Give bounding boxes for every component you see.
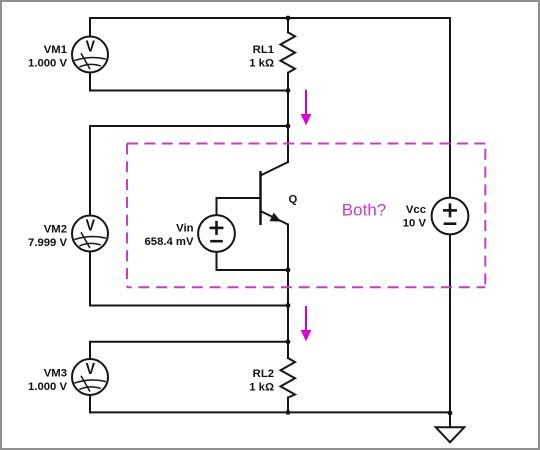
wire VM1 top lead xyxy=(89,18,91,37)
svg-text:V: V xyxy=(86,218,96,235)
svg-text:RL1: RL1 xyxy=(253,44,274,56)
svg-text:VM2: VM2 xyxy=(44,223,67,235)
node RL2 bottom xyxy=(286,410,291,415)
svg-text:1.000 V: 1.000 V xyxy=(28,58,67,70)
source Vcc xyxy=(432,198,469,235)
transistor Q xyxy=(261,162,289,225)
wire VM3 bottom lead xyxy=(89,395,91,412)
wire Vin bottom to emitter node xyxy=(217,252,289,270)
annotation arrow current RL2 xyxy=(301,306,312,342)
source Vin xyxy=(198,215,235,252)
voltmeter VM3 xyxy=(72,359,108,395)
svg-text:10 V: 10 V xyxy=(403,218,427,230)
wire RL2 bottom xyxy=(287,398,289,413)
wire top rail xyxy=(90,17,450,19)
svg-text:658.4 mV: 658.4 mV xyxy=(145,236,194,248)
svg-text:Q: Q xyxy=(289,194,298,206)
wire base from Vin to Q xyxy=(217,198,261,215)
node VM2 top xyxy=(286,124,291,129)
ground xyxy=(436,427,465,442)
wire ground lead xyxy=(449,412,451,427)
node VM1-RL1 xyxy=(286,88,291,93)
wire net xyxy=(90,18,450,427)
wire RL1 top lead xyxy=(287,18,289,32)
voltmeter VM1 xyxy=(72,37,108,73)
svg-text:Vin: Vin xyxy=(176,222,193,234)
svg-text:Vcc: Vcc xyxy=(406,204,426,216)
annotation dashed box xyxy=(127,144,485,288)
node emitter xyxy=(286,268,291,273)
node ground xyxy=(448,411,453,416)
wire RL1 bottom to collector xyxy=(287,73,289,162)
resistor RL1 xyxy=(281,32,296,72)
svg-text:VM1: VM1 xyxy=(44,44,67,56)
svg-text:V: V xyxy=(86,361,96,378)
wire VM1 bottom lead to node B1 xyxy=(90,73,288,91)
voltmeter VM2 xyxy=(72,216,108,252)
wire emitter down through nodes xyxy=(287,225,289,359)
wire VM2 top lead to node B2 xyxy=(90,126,288,216)
svg-text:Both?: Both? xyxy=(342,200,386,219)
svg-text:1 kΩ: 1 kΩ xyxy=(249,382,274,394)
svg-text:1.000 V: 1.000 V xyxy=(28,381,67,393)
wire VM3 top lead xyxy=(90,342,288,359)
node top xyxy=(286,16,291,21)
wire Vcc bottom lead xyxy=(449,234,451,412)
annotation arrow current RL1 xyxy=(301,90,312,126)
svg-text:V: V xyxy=(86,39,96,56)
wire Vcc top lead xyxy=(449,18,451,198)
wire VM2 bottom lead to node E2 xyxy=(90,252,288,306)
wire bottom rail xyxy=(90,411,450,413)
svg-text:7.999 V: 7.999 V xyxy=(28,237,67,249)
svg-text:1 kΩ: 1 kΩ xyxy=(249,58,274,70)
resistor RL2 xyxy=(281,358,296,398)
svg-text:VM3: VM3 xyxy=(44,368,67,380)
node VM3-RL2 xyxy=(286,339,291,344)
svg-text:RL2: RL2 xyxy=(253,368,274,380)
node VM2 bottom xyxy=(286,303,291,308)
